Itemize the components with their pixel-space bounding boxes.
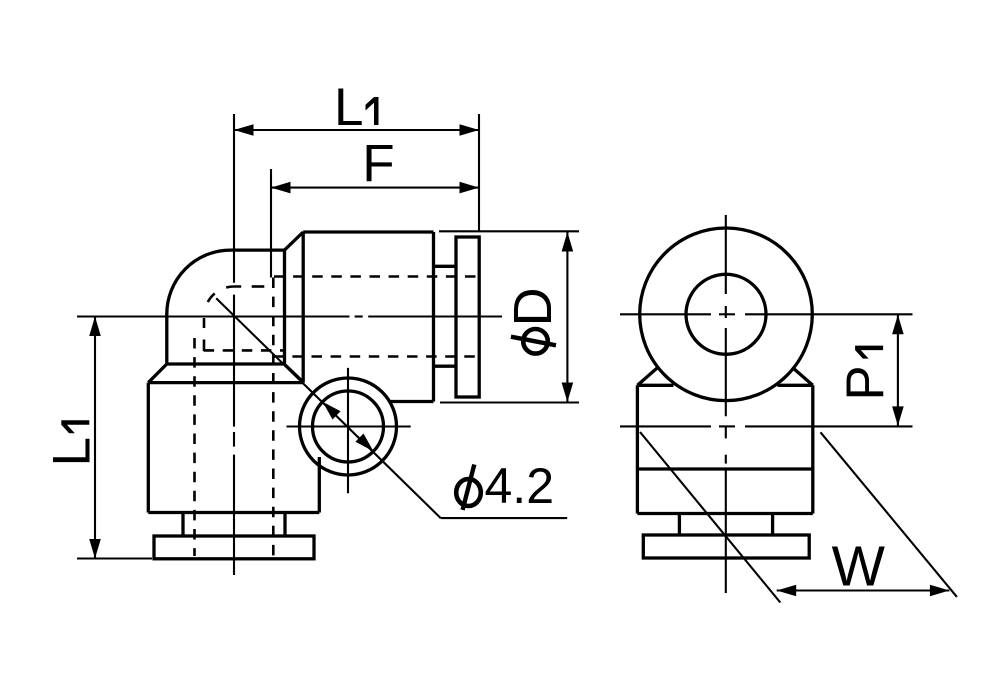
- extension diagonal W right: [821, 432, 957, 597]
- dimension L1 horizontal right arrow: [460, 124, 480, 136]
- front body right edge: [811, 385, 814, 513]
- extension line L1 vertical bottom: [77, 557, 152, 559]
- svg-text:F: F: [362, 135, 394, 194]
- hidden bore left edge vertical leg: [193, 338, 196, 556]
- label W: [832, 535, 886, 598]
- elbow vertical tube shoulder edge: [166, 362, 285, 365]
- label F: [362, 135, 394, 194]
- front cone chamfer left: [637, 367, 658, 385]
- elbow outer corner arc: [167, 250, 231, 314]
- horizontal neck top edge: [434, 265, 457, 268]
- extension line F left: [270, 169, 272, 278]
- front body top edge left part: [637, 384, 673, 387]
- svg-text:L: L: [42, 437, 101, 466]
- svg-text:D: D: [503, 287, 563, 326]
- corner boss inner circle phi4.2 hole: [313, 391, 384, 462]
- hidden small bore top edge: [252, 285, 265, 288]
- boss crosshair horizontal: [287, 425, 411, 427]
- horizontal cylinder bottom edge: [389, 400, 434, 403]
- front tube hole circle: [686, 274, 766, 354]
- dimension W left arrow: [777, 585, 797, 597]
- hidden bore bottom edge horizontal leg: [273, 355, 478, 358]
- horizontal leg cone top chamfer: [285, 232, 304, 250]
- vertical body left edge: [147, 383, 150, 513]
- front vertical centerline: [725, 215, 727, 593]
- vertical release ring: [154, 536, 314, 559]
- dimension L1 horizontal left arrow: [234, 124, 254, 136]
- dimension phiD line: [566, 231, 568, 402]
- extension diagonal W left: [640, 432, 780, 603]
- horizontal release ring: [456, 237, 479, 397]
- horizontal neck bottom edge: [434, 365, 457, 368]
- horizontal cylinder left edge: [302, 232, 305, 383]
- elbow horizontal tube end edge: [283, 249, 286, 366]
- dimension L1 horizontal line: [234, 129, 479, 131]
- dimension P1 line: [897, 314, 899, 426]
- horizontal cylinder right edge: [432, 232, 435, 402]
- front neck right edge: [771, 514, 774, 536]
- vertical leg centerline / L1 extension: [233, 114, 235, 575]
- horizontal cylinder top edge: [303, 230, 433, 233]
- leader phi4.2 lower arrow: [355, 434, 373, 452]
- extension line phiD bottom: [440, 401, 579, 403]
- label phi4.2: [456, 458, 554, 514]
- front body left edge: [636, 385, 639, 513]
- front boss axis line / P1 extension bottom: [620, 425, 913, 427]
- vertical body right edge: [318, 457, 321, 513]
- hidden bore top edge horizontal leg: [274, 275, 478, 278]
- front body middle line: [637, 467, 812, 470]
- corner cone intersection slant: [285, 365, 304, 383]
- dimension L1 vertical line: [94, 317, 96, 559]
- dimension L1 vertical top arrow: [89, 317, 101, 337]
- label P1: [836, 346, 895, 401]
- vertical neck right edge: [283, 513, 286, 537]
- front release ring: [643, 535, 809, 558]
- dimension F left arrow: [271, 182, 291, 194]
- svg-text:L: L: [334, 78, 363, 137]
- elbow top outer edge: [230, 248, 285, 251]
- vertical leg cone left chamfer: [148, 364, 167, 383]
- label phiD: [503, 287, 563, 353]
- vertical body bottom edge: [148, 511, 319, 514]
- extension line L1/F right: [478, 114, 480, 232]
- vertical neck left edge: [181, 513, 184, 537]
- dimension F line: [271, 187, 479, 189]
- dimension W right arrow: [930, 585, 950, 597]
- dimension L1 vertical bottom arrow: [89, 539, 101, 559]
- hidden counterbore end face vertical: [204, 349, 284, 352]
- svg-text:W: W: [832, 535, 886, 598]
- vertical body top edge: [148, 381, 303, 384]
- front big circle phiD: [640, 228, 813, 401]
- dimension phiD bottom arrow: [562, 383, 574, 403]
- front body top edge right part: [778, 384, 813, 387]
- dimension P1 top arrow: [892, 315, 904, 335]
- horizontal leg centerline: [77, 315, 502, 317]
- svg-text:4.2: 4.2: [485, 458, 555, 514]
- hidden bore right edge vertical leg: [272, 278, 275, 557]
- label L1 horizontal: [334, 78, 379, 137]
- front neck left edge: [678, 514, 681, 536]
- extension line phiD top: [439, 230, 579, 232]
- hidden counterbore end face horizontal: [203, 318, 206, 351]
- leader phi4.2 upper arrow: [323, 402, 341, 420]
- elbow left outer edge: [165, 313, 168, 364]
- label L1 vertical: [42, 420, 101, 466]
- boss crosshair vertical: [347, 368, 349, 493]
- front horizontal centerline / P1 extension top: [620, 313, 913, 315]
- dimension phiD top arrow: [562, 232, 574, 252]
- corner boss outer circle: [300, 378, 397, 475]
- dimension F right arrow: [460, 182, 480, 194]
- dimension W line: [777, 589, 950, 591]
- front cone chamfer right: [792, 367, 813, 385]
- front body bottom edge: [637, 512, 812, 515]
- hidden corner bend arc: [208, 286, 241, 302]
- svg-text:P: P: [836, 365, 895, 400]
- dimension P1 bottom arrow: [892, 406, 904, 426]
- leader line phi4.2: [216, 298, 567, 518]
